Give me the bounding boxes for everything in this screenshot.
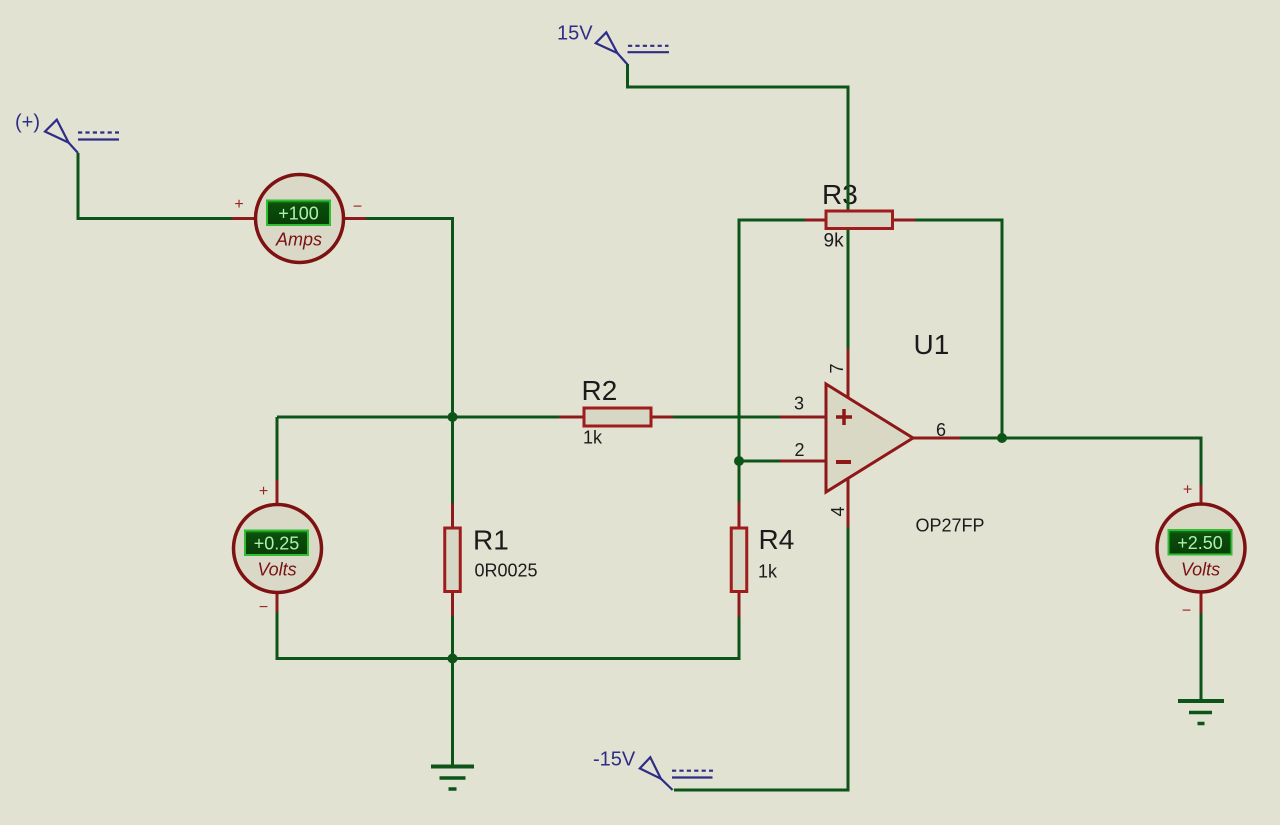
op-amp U1 body bbox=[826, 384, 913, 492]
svg-text:R1: R1 bbox=[473, 525, 509, 556]
junction node A bbox=[448, 412, 458, 422]
R2 right lead bbox=[650, 416, 673, 419]
wire R3 left to inverting branch down to R4 bbox=[739, 220, 806, 503]
svg-text:Volts: Volts bbox=[257, 560, 296, 580]
svg-text:2: 2 bbox=[794, 440, 804, 460]
voltmeter1 top pin stub bbox=[276, 480, 279, 506]
voltmeter2 top pin stub bbox=[1200, 485, 1203, 506]
svg-text:3: 3 bbox=[794, 394, 804, 414]
power terminal 15V bbox=[596, 32, 669, 64]
op-amp pin 2 wire bbox=[780, 460, 827, 463]
resistor R1 bbox=[445, 528, 461, 592]
voltmeter2 bottom pin stub bbox=[1200, 591, 1203, 613]
R3 left lead bbox=[805, 219, 827, 222]
svg-text:-15V: -15V bbox=[593, 749, 636, 771]
op-amp pin 7 wire bbox=[847, 349, 850, 399]
svg-text:U1: U1 bbox=[914, 329, 950, 360]
svg-text:0R0025: 0R0025 bbox=[475, 561, 538, 581]
svg-text:Amps: Amps bbox=[275, 230, 322, 250]
svg-text:Volts: Volts bbox=[1181, 560, 1220, 580]
wire R1 bottom bbox=[451, 615, 454, 659]
wire voltmeter1 bottom to bottom rail bbox=[277, 611, 739, 659]
R1 bottom lead bbox=[451, 590, 454, 616]
svg-text:6: 6 bbox=[936, 420, 946, 440]
resistor R2 bbox=[584, 408, 651, 426]
op-amp minus marking bbox=[836, 460, 851, 464]
svg-text:−: − bbox=[1182, 603, 1191, 620]
wire 15V rail to pin7 bbox=[628, 64, 849, 350]
ammeter display bbox=[267, 201, 330, 226]
R2 left lead bbox=[559, 416, 585, 419]
ammeter right pin stub bbox=[343, 217, 366, 220]
R4 bottom lead bbox=[738, 590, 741, 617]
op-amp pin 3 wire bbox=[780, 416, 827, 419]
ammeter left pin stub bbox=[232, 217, 256, 220]
svg-text:−: − bbox=[353, 199, 362, 216]
svg-text:1k: 1k bbox=[758, 562, 778, 582]
power terminal -15V bbox=[640, 757, 713, 790]
svg-text:+100: +100 bbox=[278, 204, 319, 224]
svg-text:+: + bbox=[259, 483, 268, 500]
wire node B to pin2 bbox=[739, 460, 781, 463]
svg-text:(+): (+) bbox=[15, 112, 40, 134]
junction node B pin2 bbox=[734, 456, 744, 466]
op-amp pin 6 wire bbox=[912, 437, 960, 440]
svg-text:+0.25: +0.25 bbox=[254, 534, 300, 554]
ground right bbox=[1178, 701, 1224, 724]
wire R3 right to output node bbox=[914, 220, 1002, 438]
svg-text:+: + bbox=[1183, 482, 1192, 499]
svg-text:1k: 1k bbox=[583, 428, 603, 448]
svg-text:R4: R4 bbox=[759, 524, 795, 555]
svg-text:+: + bbox=[234, 196, 243, 213]
ground left bbox=[431, 767, 474, 790]
voltmeter V1 display bbox=[245, 531, 308, 556]
R3 right lead bbox=[892, 219, 915, 222]
svg-text:+2.50: +2.50 bbox=[1177, 533, 1223, 553]
voltmeter1 bottom pin stub bbox=[276, 591, 279, 612]
svg-text:7: 7 bbox=[827, 363, 847, 373]
ammeter body bbox=[256, 175, 344, 263]
wire -15V rail to pin4 bbox=[674, 526, 848, 790]
voltmeter V1 body bbox=[234, 505, 322, 593]
R1 top lead bbox=[451, 503, 454, 528]
op-amp plus marking bbox=[836, 409, 852, 425]
voltmeter V2 display bbox=[1169, 530, 1232, 555]
svg-text:−: − bbox=[259, 599, 268, 616]
wire ammeter - to node A bbox=[365, 219, 453, 418]
svg-text:4: 4 bbox=[828, 506, 848, 516]
wire (+) terminal to ammeter + bbox=[78, 153, 234, 219]
R4 top lead bbox=[738, 502, 741, 528]
resistor R4 bbox=[731, 528, 747, 592]
wire R2 to pin3 bbox=[672, 416, 781, 419]
wire output to voltmeter2 bbox=[959, 438, 1201, 486]
junction bottom rail node bbox=[448, 654, 458, 664]
svg-text:R2: R2 bbox=[582, 375, 618, 406]
resistor R3 body bbox=[826, 211, 893, 229]
svg-text:R3: R3 bbox=[822, 179, 858, 210]
junction output node bbox=[997, 433, 1007, 443]
wire node A horizontal to R2 bbox=[277, 416, 560, 419]
svg-text:15V: 15V bbox=[557, 23, 593, 45]
op-amp pin 4 wire bbox=[847, 477, 850, 527]
wire ground stem left bbox=[451, 659, 454, 767]
power terminal (+) bbox=[45, 120, 119, 153]
voltmeter V2 body bbox=[1157, 504, 1245, 592]
svg-text:OP27FP: OP27FP bbox=[916, 516, 985, 536]
wire voltmeter2 bottom to ground bbox=[1200, 612, 1203, 700]
wire voltmeter1 top bbox=[276, 417, 279, 481]
wire R1 top bbox=[451, 417, 454, 504]
svg-text:9k: 9k bbox=[824, 231, 845, 252]
